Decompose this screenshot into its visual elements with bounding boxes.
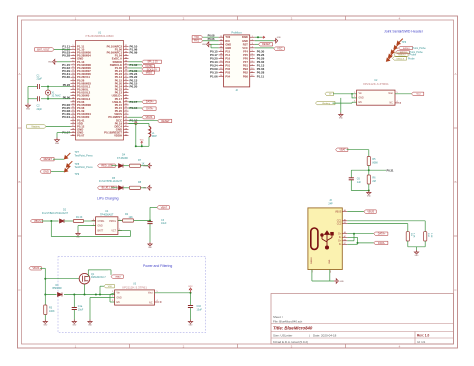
global label VBAT (charger) xyxy=(157,206,169,210)
svg-text:GND: GND xyxy=(98,225,103,227)
wire DCC down to rail xyxy=(135,123,137,146)
svg-text:GND: GND xyxy=(367,195,372,197)
svg-text:Probe: Probe xyxy=(408,57,415,60)
svg-text:B5: B5 xyxy=(344,222,346,224)
wire U4 PROG to R2 xyxy=(118,220,123,222)
USB pin stubs right xyxy=(335,209,347,246)
svg-text:42: 42 xyxy=(125,79,128,81)
svg-text:Vout: Vout xyxy=(388,92,393,95)
svg-text:60: 60 xyxy=(125,134,128,136)
wire R2 to VBAT rail xyxy=(134,207,157,221)
svg-text:Vbattery: Vbattery xyxy=(31,125,40,128)
svg-text:|: | xyxy=(309,333,310,337)
svg-text:RAW: RAW xyxy=(242,35,249,39)
wire Q1 gate down xyxy=(84,284,86,295)
global label VBUS (U1) xyxy=(142,116,154,120)
global label VBUS (filter) xyxy=(29,267,41,271)
resistor R10 5.1K xyxy=(424,232,432,241)
svg-text:4: 4 xyxy=(72,54,74,56)
wire source rail to Q1 xyxy=(45,278,79,280)
wire to DATA- label xyxy=(129,107,143,109)
svg-text:VBUS: VBUS xyxy=(367,211,374,214)
wire U2 GND down xyxy=(341,98,357,113)
svg-text:13: 13 xyxy=(72,82,75,84)
test point TP3 probe with SWCLK global label xyxy=(391,47,423,54)
svg-text:PB1: PB1 xyxy=(243,64,249,68)
svg-text:5.1K: 5.1K xyxy=(413,233,415,238)
svg-text:A: A xyxy=(454,72,456,76)
svg-text:EN: EN xyxy=(117,302,121,304)
capacitor C1 22pF xyxy=(35,75,48,89)
svg-text:B: B xyxy=(18,180,20,184)
svg-text:4: 4 xyxy=(93,219,94,221)
USB shield pin names xyxy=(311,257,332,273)
wire VBUS to diode D2 xyxy=(42,220,59,222)
svg-text:NC: NC xyxy=(149,302,153,304)
wire DCC to power flag xyxy=(129,122,136,124)
svg-text:RST: RST xyxy=(243,42,249,46)
svg-text:TestPoint_Press: TestPoint_Press xyxy=(75,166,94,169)
svg-text:GND: GND xyxy=(72,324,77,326)
svg-text:PF5: PF5 xyxy=(243,53,248,57)
ground U4 xyxy=(76,232,81,239)
global label BAT_VOLT xyxy=(35,48,55,52)
svg-text:KT-0603R: KT-0603R xyxy=(117,157,128,160)
svg-text:35: 35 xyxy=(125,57,128,59)
test point TP9 xyxy=(65,166,80,176)
svg-text:49: 49 xyxy=(125,101,128,103)
svg-text:PROG: PROG xyxy=(109,221,116,223)
svg-text:19: 19 xyxy=(72,101,75,103)
svg-text:P0.30: P0.30 xyxy=(62,75,70,79)
svg-text:GND: GND xyxy=(339,117,344,119)
resistor R7 1K xyxy=(130,159,147,167)
svg-text:54: 54 xyxy=(125,116,128,118)
svg-text:VBAT: VBAT xyxy=(339,149,346,152)
charger IC U4 xyxy=(92,210,122,235)
wire U3 Vout to VCC xyxy=(155,292,192,306)
global label RESET (test point) xyxy=(40,158,64,162)
svg-text:32: 32 xyxy=(125,48,128,50)
transistor Q1 DMG3415U xyxy=(79,273,106,284)
svg-text:S1: S1 xyxy=(312,270,314,272)
svg-text:Joint Serial/SWD Header: Joint Serial/SWD Header xyxy=(384,30,424,34)
svg-text:Vout: Vout xyxy=(416,93,421,96)
svg-text:RESET: RESET xyxy=(262,43,271,46)
svg-text:ProMicro: ProMicro xyxy=(231,30,242,34)
svg-text:38: 38 xyxy=(125,67,128,69)
svg-text:Rev: 1.0: Rev: 1.0 xyxy=(417,334,429,338)
svg-text:VBAT: VBAT xyxy=(115,276,121,279)
hier label Vout (U2) xyxy=(412,92,424,96)
ground CC resistors xyxy=(414,250,419,257)
svg-text:R1 2K: R1 2K xyxy=(76,217,83,219)
svg-text:RXI: RXI xyxy=(225,39,230,43)
svg-text:DATA+: DATA+ xyxy=(146,101,154,104)
wire DEC4 to L1 top xyxy=(129,123,150,126)
J2 right outside labels xyxy=(257,49,265,78)
svg-text:VCC: VCC xyxy=(277,48,282,51)
svg-text:39: 39 xyxy=(125,70,128,72)
U1 pin names (right column) xyxy=(104,44,123,137)
svg-text:VBUS: VBUS xyxy=(34,220,41,223)
svg-text:SWCLK: SWCLK xyxy=(396,58,404,60)
wire crystal lower xyxy=(47,95,71,99)
wire VBUS bottom loop to U4 VCC xyxy=(51,221,130,237)
svg-text:PB2: PB2 xyxy=(243,71,249,75)
svg-text:U1: U1 xyxy=(98,30,102,34)
wire U2 NC stub xyxy=(395,102,401,103)
resistor R1 xyxy=(74,217,96,223)
resistor R8 1K xyxy=(130,181,147,189)
svg-text:RESET: RESET xyxy=(44,158,53,161)
diode D4 xyxy=(119,164,130,168)
svg-text:P0.08: P0.08 xyxy=(208,34,215,38)
global label VBAT (filter) xyxy=(111,275,123,279)
svg-text:GND: GND xyxy=(340,281,345,283)
svg-text:TX0: TX0 xyxy=(194,36,199,39)
svg-text:DMG3415U-7: DMG3415U-7 xyxy=(91,276,106,279)
svg-text:File: BlueMicro840.sch: File: BlueMicro840.sch xyxy=(273,319,303,323)
wire to RESET label xyxy=(129,119,158,121)
wire divider node P0.31 xyxy=(368,166,394,176)
svg-text:46: 46 xyxy=(125,91,128,93)
svg-text:15: 15 xyxy=(72,88,75,90)
resistor R5 806K xyxy=(367,157,378,166)
wire U3 EN tie xyxy=(110,293,115,302)
svg-text:P1.11: P1.11 xyxy=(257,74,265,78)
svg-text:5: 5 xyxy=(252,50,254,52)
svg-text:26: 26 xyxy=(72,122,75,124)
svg-text:GND: GND xyxy=(202,44,207,46)
svg-text:GND: GND xyxy=(43,324,48,326)
ground at U1 pin 6 xyxy=(48,59,71,64)
svg-text:Id: 1/1: Id: 1/1 xyxy=(417,340,426,344)
svg-text:47: 47 xyxy=(125,94,128,96)
wire P0.07 pin xyxy=(57,133,71,138)
svg-text:GND: GND xyxy=(359,98,364,100)
svg-text:VCC: VCC xyxy=(188,286,193,288)
svg-text:2: 2 xyxy=(72,48,74,50)
wire VBUS from USB xyxy=(347,211,364,213)
J2 GND pin 2 xyxy=(255,37,282,43)
svg-text:XP2112K-3.3TR61: XP2112K-3.3TR61 xyxy=(363,82,389,86)
J2 RAW pin power xyxy=(255,36,265,38)
U1 pin names (left column) xyxy=(77,44,91,137)
wire divider bottom xyxy=(351,184,370,192)
ground crystal xyxy=(26,103,31,111)
svg-text:37: 37 xyxy=(125,64,128,66)
svg-text:43: 43 xyxy=(125,82,128,84)
svg-text:IN-217/BAC-HK2L0A/3T: IN-217/BAC-HK2L0A/3T xyxy=(42,212,68,215)
svg-text:VDDH: VDDH xyxy=(114,134,122,138)
svg-text:DATA-: DATA- xyxy=(378,242,385,245)
svg-text:GND: GND xyxy=(117,297,122,299)
J2 left outside labels xyxy=(210,49,218,78)
svg-text:P14: P14 xyxy=(225,53,230,57)
svg-text:B7: B7 xyxy=(344,243,346,245)
svg-text:VBUS: VBUS xyxy=(32,267,39,270)
svg-text:59: 59 xyxy=(125,131,128,133)
global label SPI_1.15 xyxy=(142,60,162,64)
svg-text:1uF: 1uF xyxy=(357,181,362,184)
svg-text:RX1: RX1 xyxy=(194,40,199,43)
main rail power filter xyxy=(45,294,114,296)
svg-text:J2: J2 xyxy=(235,89,238,92)
svg-text:PB3: PB3 xyxy=(243,67,249,71)
svg-text:CC2: CC2 xyxy=(337,223,342,225)
test point TP7 xyxy=(65,151,94,159)
svg-text:R9: R9 xyxy=(410,233,412,237)
diode D2 xyxy=(42,209,73,224)
J2 GND tie left xyxy=(202,42,219,48)
svg-text:PB6: PB6 xyxy=(243,74,249,78)
ground C15 xyxy=(72,320,77,327)
hier label VDD (filter) xyxy=(100,285,115,295)
svg-text:TestPoint_Press: TestPoint_Press xyxy=(75,154,94,157)
svg-text:17: 17 xyxy=(220,50,223,52)
svg-text:5.1K: 5.1K xyxy=(430,233,432,238)
svg-text:SWDIO: SWDIO xyxy=(403,48,410,50)
ground LED D5 xyxy=(143,185,152,190)
svg-text:GND: GND xyxy=(55,143,60,145)
svg-text:22: 22 xyxy=(72,110,75,112)
wire node to C6 xyxy=(351,170,369,178)
svg-text:P1.06: P1.06 xyxy=(210,74,218,78)
section title LiPo Charging xyxy=(97,197,119,201)
svg-text:9: 9 xyxy=(72,70,74,72)
global label RX1 with wire xyxy=(192,37,219,43)
svg-text:44: 44 xyxy=(125,85,128,87)
power symbol VCC (filter) xyxy=(188,286,193,293)
svg-text:P02: P02 xyxy=(225,67,230,71)
svg-text:45: 45 xyxy=(125,88,128,90)
svg-text:CC1: CC1 xyxy=(337,221,342,223)
svg-text:ITB-26UMDB632-32B40: ITB-26UMDB632-32B40 xyxy=(85,34,114,38)
J2 right pin stubs xyxy=(250,36,255,77)
svg-text:P0.09: P0.09 xyxy=(130,51,138,55)
svg-text:C: C xyxy=(18,288,21,292)
svg-text:40: 40 xyxy=(125,73,128,75)
USB connector J3 xyxy=(308,199,342,270)
svg-text:R8: R8 xyxy=(138,181,142,184)
svg-text:B6: B6 xyxy=(344,239,346,241)
capacitor C2 22pF xyxy=(35,96,48,111)
svg-text:P0.26: P0.26 xyxy=(63,83,71,87)
svg-text:P0.06: P0.06 xyxy=(208,37,215,41)
LED D4 red channel xyxy=(98,153,129,167)
ground divider xyxy=(367,191,372,198)
wire VBAT to R5 xyxy=(347,150,369,157)
svg-text:GND: GND xyxy=(26,109,31,111)
wire USB shield to ground xyxy=(312,270,334,282)
hier label 5V (U2 in) xyxy=(325,92,357,96)
section box Power and Filtering xyxy=(58,257,206,333)
resistor R9 5.1K xyxy=(406,232,414,241)
ground USB shield xyxy=(334,279,344,284)
svg-text:25: 25 xyxy=(72,119,75,121)
svg-text:58: 58 xyxy=(125,128,128,130)
svg-text:16: 16 xyxy=(72,91,75,93)
global label VBUS (USB) xyxy=(364,210,376,214)
svg-text:41: 41 xyxy=(125,76,128,78)
svg-text:12: 12 xyxy=(72,79,75,81)
svg-text:SWDIO: SWDIO xyxy=(398,55,406,57)
svg-text:GND: GND xyxy=(329,259,331,264)
svg-text:P0.20: P0.20 xyxy=(130,84,138,88)
svg-text:52: 52 xyxy=(125,110,128,112)
LED D5 blue channel xyxy=(98,177,123,190)
wire CC resistors to ground xyxy=(408,241,425,250)
svg-text:VCT: VCT xyxy=(111,230,116,232)
global label DATA+ (USB) xyxy=(374,232,388,236)
svg-text:51: 51 xyxy=(125,107,128,109)
svg-text:Vout: Vout xyxy=(148,292,153,295)
svg-text:R10: R10 xyxy=(427,233,429,238)
test point TP2 probe with SWDIO global label xyxy=(394,43,426,50)
hier label SWCLK (header) xyxy=(387,55,416,61)
regulator U3 XC2112 xyxy=(112,283,157,306)
wire Q1 drain to VBAT xyxy=(88,270,111,277)
wire VCC down to rail xyxy=(141,144,143,146)
svg-text:DATA-: DATA- xyxy=(146,108,153,111)
ground LED D4 xyxy=(143,163,152,168)
svg-text:DATA+: DATA+ xyxy=(378,233,386,236)
svg-text:7: 7 xyxy=(72,64,74,66)
global label VBAT (divider) xyxy=(336,148,348,152)
wire CC1 to R9 xyxy=(347,221,425,232)
svg-text:D-: D- xyxy=(339,244,342,246)
svg-text:48: 48 xyxy=(125,97,128,99)
svg-text:VDD: VDD xyxy=(108,286,113,288)
U1 left pin stubs and numbers xyxy=(71,45,76,136)
svg-text:TX0: TX0 xyxy=(225,35,230,39)
svg-text:VBUS: VBUS xyxy=(335,211,342,213)
svg-text:55: 55 xyxy=(125,119,128,121)
U1 right outside net labels xyxy=(130,44,138,122)
title block xyxy=(271,294,454,345)
ground U3 xyxy=(88,320,93,327)
hier label SWDIO (header) xyxy=(389,52,417,58)
svg-text:GND: GND xyxy=(415,255,420,257)
svg-text:10uF: 10uF xyxy=(197,309,203,312)
global label DATA- (USB) xyxy=(374,241,388,245)
wire to VCHG label xyxy=(129,64,143,66)
USB trident icon xyxy=(321,231,334,249)
svg-text:GND: GND xyxy=(189,324,194,326)
wire D- tie xyxy=(347,237,374,244)
wire U3 GND down xyxy=(90,298,110,320)
svg-text:57: 57 xyxy=(125,125,128,127)
svg-text:1: 1 xyxy=(112,291,113,293)
hier label Vbattery (U2) xyxy=(316,101,357,105)
resistor R3 100K xyxy=(44,295,55,320)
diode D1 B5819W xyxy=(53,284,65,297)
svg-text:1: 1 xyxy=(72,45,74,47)
svg-text:MISO: MISO xyxy=(146,72,152,75)
regulator U2 xyxy=(354,79,397,105)
ground C16 xyxy=(188,320,193,327)
svg-text:P03: P03 xyxy=(225,71,230,75)
svg-text:A6: A6 xyxy=(344,231,346,234)
svg-text:D2: D2 xyxy=(63,209,67,212)
global label DATA+ (U1) xyxy=(142,100,156,104)
svg-text:Size: USLetter: Size: USLetter xyxy=(273,333,292,337)
svg-text:GND: GND xyxy=(242,39,248,43)
J2 pin names inside xyxy=(225,35,248,78)
svg-text:P10: P10 xyxy=(225,60,230,64)
wire caps to ground rail xyxy=(28,86,35,103)
svg-text:VBAT: VBAT xyxy=(161,206,168,209)
svg-text:Title: BlueMicro840: Title: BlueMicro840 xyxy=(273,326,313,331)
svg-text:NC: NC xyxy=(389,103,393,105)
svg-text:Probe: Probe xyxy=(410,54,417,57)
svg-text:P0.07: P0.07 xyxy=(77,134,85,138)
svg-text:GND: GND xyxy=(143,188,148,190)
svg-text:Date: 2020-04-18: Date: 2020-04-18 xyxy=(313,333,337,337)
capacitor C16 10uF xyxy=(188,305,203,319)
svg-text:P0.28: P0.28 xyxy=(62,54,70,58)
svg-text:10uF: 10uF xyxy=(161,222,167,225)
wire to SPI_1.15 label xyxy=(129,61,143,63)
wire VBUS down to rails xyxy=(40,268,46,295)
svg-text:30: 30 xyxy=(72,134,75,136)
capacitor C3 10uF xyxy=(147,219,167,242)
svg-text:B5819W: B5819W xyxy=(53,287,63,290)
global label RESET (U1) xyxy=(158,119,172,123)
global label VCHG xyxy=(142,64,154,68)
wire to SCK label xyxy=(129,67,143,69)
svg-text:Sheet: /: Sheet: / xyxy=(273,315,283,319)
svg-text:GND: GND xyxy=(148,247,153,249)
svg-text:GND: GND xyxy=(43,170,49,173)
wire to DATA+ label xyxy=(129,101,143,103)
svg-text:IN-S17/BHC-2L0A/3T: IN-S17/BHC-2L0A/3T xyxy=(99,180,123,183)
svg-text:36: 36 xyxy=(125,61,128,63)
wire L1 bottom to rail xyxy=(135,137,149,147)
svg-text:56: 56 xyxy=(125,122,128,124)
svg-text:A: A xyxy=(18,72,20,76)
svg-text:Point_Probe: Point_Probe xyxy=(413,47,427,50)
svg-text:BATT: BATT xyxy=(98,229,104,232)
svg-text:22pF: 22pF xyxy=(37,78,43,81)
crystal Y1 32.7kHz xyxy=(45,86,61,98)
power symbol VCC at L1 xyxy=(140,140,145,145)
test point TP8 xyxy=(67,161,94,169)
svg-text:BAT_VOLT: BAT_VOLT xyxy=(37,48,50,51)
svg-text:TP9: TP9 xyxy=(75,173,80,176)
svg-text:RESET: RESET xyxy=(161,120,170,123)
svg-text:3: 3 xyxy=(72,51,74,53)
svg-text:6: 6 xyxy=(72,61,74,63)
svg-text:P04: P04 xyxy=(225,74,230,78)
svg-text:29: 29 xyxy=(72,131,75,133)
svg-text:LiPo Charging: LiPo Charging xyxy=(97,197,119,201)
svg-text:34: 34 xyxy=(125,54,128,56)
svg-text:53: 53 xyxy=(125,113,128,115)
svg-text:22pF: 22pF xyxy=(37,108,43,111)
svg-text:17: 17 xyxy=(72,94,75,96)
wire BAT_VOLT to U1 xyxy=(54,48,71,50)
wire CC2 to R10 xyxy=(347,224,408,232)
section title Joint Serial/SWD Header xyxy=(384,30,424,34)
global label MISO xyxy=(129,71,155,75)
svg-text:Vbattery: Vbattery xyxy=(322,102,331,105)
svg-text:XP2112K-3.3TR61: XP2112K-3.3TR61 xyxy=(122,285,147,289)
resistor R2 12K xyxy=(123,213,134,222)
connector J2 ProMicro xyxy=(224,30,250,91)
wire U4 GND pin xyxy=(78,226,96,232)
